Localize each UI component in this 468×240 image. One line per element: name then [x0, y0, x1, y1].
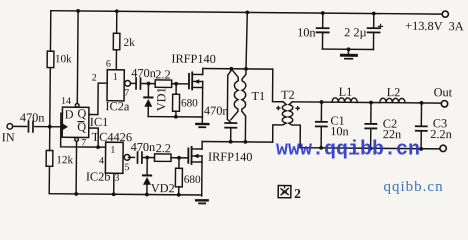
ground M2 source	[196, 199, 207, 202]
wire resistor2 to gate M2	[171, 157, 188, 159]
svg-text:6: 6	[106, 59, 111, 70]
svg-text:VD1: VD1	[154, 87, 168, 111]
pin 7 wire to bottom rail	[75, 141, 77, 194]
svg-text:7: 7	[124, 88, 129, 99]
node T1 cap bottom	[229, 140, 233, 144]
svg-text:T1: T1	[252, 89, 266, 103]
svg-text:2.2: 2.2	[156, 141, 171, 155]
IC2b output bubble	[124, 154, 130, 160]
node C1 top	[320, 100, 324, 104]
inductor L1	[332, 98, 357, 103]
node IN junction	[48, 125, 52, 129]
terminal +13.8V	[442, 11, 448, 17]
node T1 right bottom	[243, 140, 247, 144]
inductor T2 left winding	[273, 102, 287, 143]
pin 7 circle IC1	[75, 138, 79, 142]
diode VD1	[147, 84, 149, 98]
svg-text:Out: Out	[434, 85, 453, 99]
node C2 bottom	[369, 146, 373, 150]
wire Qbar to node	[89, 128, 99, 147]
node junction top rail x77	[76, 9, 80, 13]
resistor R 680 gate1	[175, 84, 177, 94]
capacitor 470n gate1	[136, 78, 140, 89]
wire T2 left top drop	[273, 69, 284, 102]
clock triangle	[62, 123, 68, 130]
node junction top rail x375	[372, 12, 376, 16]
resistor R 2.2 gate1	[155, 80, 172, 88]
svg-text:5: 5	[124, 162, 129, 173]
resistor R 680 gate2	[178, 158, 180, 168]
wire T1 cap feed line	[227, 70, 231, 122]
node junction top rail x322	[321, 11, 325, 15]
label plus right	[295, 106, 299, 110]
node 680 junction gate2	[177, 156, 181, 160]
node rail pin3	[112, 192, 116, 196]
svg-text:470n: 470n	[20, 110, 45, 124]
svg-text:2.2n: 2.2n	[430, 127, 452, 141]
svg-text:IN: IN	[2, 130, 15, 144]
svg-text:680: 680	[181, 97, 198, 109]
node VD2 junction	[145, 156, 149, 160]
wire bubble2 to cap	[129, 156, 135, 158]
node junction top rail x246	[245, 10, 249, 14]
op-amp U IC2a box	[107, 70, 124, 101]
svg-text:10n: 10n	[330, 124, 349, 138]
op-amp U IC1 flip-flop box	[62, 107, 89, 137]
IC2a output bubble	[125, 80, 131, 86]
wire 12k to bottom rail	[48, 166, 50, 193]
node C2 top	[369, 101, 373, 105]
node T1 right top	[244, 67, 248, 71]
wire cap2 to resistor	[143, 157, 154, 159]
svg-text:10k: 10k	[55, 53, 72, 65]
svg-text:1: 1	[113, 72, 118, 83]
node ground stub	[347, 47, 351, 51]
svg-text:VD2: VD2	[151, 181, 175, 195]
inductor T1 left winding	[231, 69, 238, 120]
svg-text:D: D	[65, 107, 74, 121]
svg-text:www.qqibb.cn: www.qqibb.cn	[276, 139, 420, 162]
capacitor 10n decoupling	[322, 13, 324, 28]
wire 2k to IC2a pin6	[115, 50, 117, 70]
capacitor 470n T1	[225, 123, 236, 128]
svg-text:7: 7	[81, 137, 86, 148]
node C1 bottom	[319, 146, 323, 150]
svg-text:+13.8V 3A: +13.8V 3A	[405, 19, 464, 34]
wire decoupling bottom	[322, 48, 373, 50]
svg-text:3: 3	[114, 173, 119, 184]
capacitor C2 22n	[370, 102, 372, 123]
inductor T1 right winding	[242, 69, 246, 142]
inductor T2 right winding	[289, 102, 301, 148]
svg-text:12k: 12k	[56, 154, 73, 166]
wire source gnd rail 1	[148, 116, 202, 118]
svg-text:470n: 470n	[131, 66, 156, 80]
node VD1 junction	[147, 82, 151, 86]
wire cap to resistor	[142, 82, 155, 84]
capacitor C3 2.2n	[420, 103, 422, 126]
svg-text:TC4426: TC4426	[92, 130, 132, 144]
diode VD2	[146, 158, 148, 176]
label figure 2	[278, 185, 291, 197]
label plus left	[276, 106, 280, 110]
resistor R 2.2 gate2	[154, 154, 171, 162]
svg-text:2: 2	[294, 186, 301, 201]
node C3 bottom	[419, 147, 423, 151]
svg-text:IRFP140: IRFP140	[208, 150, 253, 164]
wire IN to cap	[13, 125, 27, 127]
op-amp U IC2b box	[105, 142, 123, 173]
svg-text:IC1: IC1	[90, 115, 109, 129]
wire top supply rail	[51, 11, 442, 14]
node 680 bottom junction	[174, 115, 178, 119]
node T1 left top	[229, 67, 233, 71]
svg-text:470n: 470n	[131, 140, 156, 154]
svg-text:4: 4	[99, 156, 104, 167]
pin 14 wire	[76, 11, 79, 103]
capacitor 470n input	[28, 121, 33, 132]
wire output line	[292, 102, 441, 103]
svg-text:2 2µ: 2 2µ	[344, 25, 367, 39]
svg-text:14: 14	[61, 96, 71, 107]
node rail 680	[177, 193, 181, 197]
capacitor 2.2u polarity	[378, 24, 382, 28]
svg-text:Q: Q	[77, 106, 86, 120]
wire 10k to IN node	[49, 68, 52, 151]
svg-text:10n: 10n	[297, 25, 316, 39]
capacitor 470n gate2	[137, 152, 141, 163]
node 680 junction gate1	[174, 82, 178, 86]
wire Qbar node to IC2b pin4	[98, 146, 105, 148]
svg-text:IC2a: IC2a	[105, 99, 130, 113]
capacitor 2.2u decoupling	[373, 14, 375, 28]
wire supply drop to T1	[246, 12, 247, 69]
ground M1 source	[201, 117, 203, 123]
wire drain2 rail	[202, 141, 272, 144]
svg-text:2k: 2k	[123, 37, 135, 49]
pin 14 circle	[75, 104, 79, 108]
node C3 top	[420, 101, 424, 105]
resistor R 10k	[47, 51, 54, 67]
wire resistor to gate M1	[172, 83, 189, 85]
wire bottom output rail	[300, 148, 440, 149]
wire left branch down	[49, 11, 51, 51]
wire drain1 rail	[203, 68, 273, 71]
wire feedback Qbar to D	[61, 113, 99, 147]
wire bottom rail	[49, 194, 201, 195]
capacitor C1 10n	[320, 102, 322, 122]
node rail pin7	[74, 192, 78, 196]
wire IC2b pin3 to rail	[113, 173, 115, 194]
transistor Q M1 IRFP140	[189, 68, 203, 117]
terminal Out	[441, 101, 447, 107]
svg-text:T2: T2	[281, 88, 295, 102]
svg-text:1: 1	[110, 145, 115, 156]
svg-text:2: 2	[92, 73, 97, 84]
terminal IN	[7, 124, 13, 130]
resistor R 12k	[46, 150, 53, 166]
node junction top rail x116	[115, 9, 119, 13]
terminal Out return	[440, 145, 446, 151]
inductor L2	[380, 98, 405, 103]
ground decoupling	[347, 49, 349, 54]
svg-text:qqibb.cn: qqibb.cn	[384, 179, 444, 195]
wire bubble to cap	[131, 82, 135, 84]
svg-text:680: 680	[184, 174, 201, 186]
svg-text:IC2b: IC2b	[86, 170, 111, 184]
svg-text:L2: L2	[387, 85, 401, 99]
wire cap to flipflop clock	[35, 126, 62, 128]
wire 2k top	[116, 11, 118, 33]
node rail VD2	[145, 193, 149, 197]
transistor Q M2 IRFP140	[188, 141, 202, 196]
svg-text:IRFP140: IRFP140	[171, 52, 216, 66]
svg-text:2.2: 2.2	[155, 67, 170, 81]
wire Q to IC2a pin2	[89, 83, 107, 115]
node Qbar junction	[96, 145, 100, 149]
svg-text:L1: L1	[339, 85, 353, 99]
svg-text:470n: 470n	[204, 104, 229, 118]
resistor R 2k	[113, 33, 120, 50]
